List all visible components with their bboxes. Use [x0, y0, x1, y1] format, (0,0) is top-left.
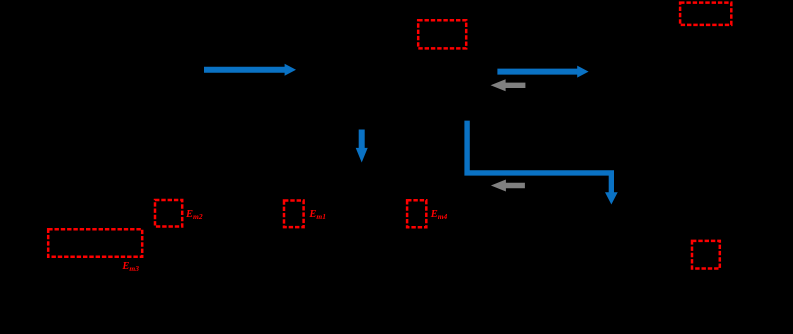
- blue arrow right (left reaction): [204, 64, 296, 76]
- red dashed wide box Em3: [48, 229, 142, 257]
- gray arrow left (upper): [491, 79, 526, 91]
- gray arrow left (lower): [491, 180, 525, 192]
- red dashed box Em4: [407, 200, 426, 227]
- red dashed box top-right: [680, 3, 731, 25]
- red dashed box bottom-right: [692, 241, 720, 269]
- blue arrow right (middle reaction): [497, 66, 588, 78]
- red dashed box Em1: [284, 201, 304, 228]
- red dashed box top-middle: [418, 20, 466, 48]
- red dashed box Em2: [155, 200, 182, 227]
- blue arrow down: [356, 130, 368, 163]
- blue elbow connector with down arrowhead: [464, 121, 617, 205]
